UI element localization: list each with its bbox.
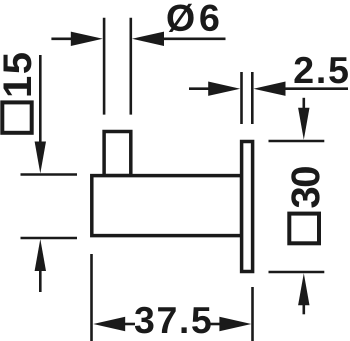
30 top arrowhead pointing down: [298, 108, 309, 140]
37.5 right connector line: [209, 323, 222, 326]
hook peg (top stud, front view): [104, 132, 131, 176]
15 top arrowhead pointing down: [35, 142, 46, 174]
extension line bottom (15 arm height): [21, 237, 78, 240]
square symbol for 15: [2, 102, 31, 132]
extension line right (37.5 depth): [251, 287, 254, 341]
label 37.5: [135, 307, 211, 334]
30 bottom arrowhead pointing up: [298, 273, 309, 305]
2.5 right arrowhead: [254, 82, 286, 96]
extension line top (15 arm height): [21, 173, 78, 176]
hook body (horizontal arm): [92, 176, 242, 236]
37.5 left arrowhead pointing left: [93, 317, 125, 331]
15 bottom arrowhead pointing up: [35, 239, 46, 271]
label dia 6: [168, 4, 219, 32]
37.5 right arrowhead pointing right: [219, 317, 251, 331]
30 top arrow shaft: [302, 98, 305, 112]
dia6 right arrowhead: [132, 32, 164, 46]
15 top arrow shaft: [39, 55, 42, 145]
2.5 left dimension line: [189, 87, 212, 90]
2.5 right dimension line: [282, 87, 348, 90]
extension line left (37.5 depth): [90, 254, 93, 341]
square symbol for 30: [289, 214, 319, 244]
extension line right (2.5 plate thickness): [251, 72, 254, 124]
dia6 left dimension line: [51, 37, 74, 40]
extension line bottom (30 plate height): [269, 271, 325, 274]
extension line left of peg (dia 6): [103, 18, 106, 115]
2.5 left arrowhead: [208, 82, 240, 96]
30 bottom arrow shaft: [302, 301, 305, 314]
extension line top (30 plate height): [269, 140, 325, 143]
dia6 right dimension line: [161, 37, 226, 40]
extension line left (2.5 plate thickness): [240, 72, 243, 124]
37.5 left connector line: [122, 323, 135, 326]
15 bottom arrow shaft: [39, 267, 42, 292]
dia6 left arrowhead: [71, 32, 103, 46]
extension line right of peg (dia 6): [130, 18, 133, 115]
label 2.5: [295, 57, 348, 84]
label 30 (rotated): [291, 167, 319, 208]
wall plate (vertical flange): [242, 142, 253, 272]
label 15 (rotated): [4, 53, 32, 95]
